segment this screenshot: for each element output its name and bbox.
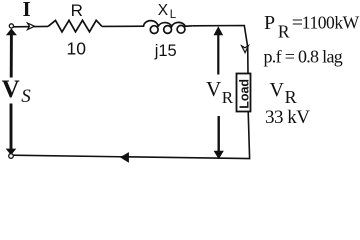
svg-text:V: V [270,79,285,101]
VS arrow down head (at source bottom) [6,149,17,156]
node: source top terminal [9,24,13,28]
svg-text:R: R [222,88,234,107]
svg-text:Load: Load [238,79,252,109]
VS arrow upper shaft [10,35,13,78]
svg-text:S: S [21,86,31,107]
VR arrow up (load voltage, head) [214,26,224,35]
svg-text:R: R [278,22,290,42]
svg-text:V: V [206,77,221,101]
svg-text:j15: j15 [154,42,177,60]
VR arrow down shaft [217,116,219,152]
svg-text:10: 10 [67,39,87,59]
svg-text:L: L [170,9,177,21]
svg-text:X: X [158,2,169,19]
svg-text:I: I [23,0,31,21]
wire: load bottom to bottom-right corner [12,112,250,159]
current arrowhead (open, pointing down) on load feeder [242,46,249,53]
VR arrow down head [214,151,224,160]
svg-text:33 kV: 33 kV [265,107,310,128]
VS arrow lower shaft [10,104,13,150]
inductor L1 (loop style) [143,21,192,27]
current arrowhead I (open, pointing right) [28,23,35,30]
return current arrowhead (filled, pointing left) on bottom wire [121,153,129,163]
wire: resistor to inductor [102,25,144,27]
wire: top, terminal to resistor [14,25,49,27]
load box [237,74,251,112]
svg-text:V: V [2,76,20,103]
wire: inductor to top-right corner and down to load [193,26,248,74]
svg-text:R: R [285,87,297,107]
svg-text:P: P [264,12,275,34]
VR arrow up shaft [217,34,219,75]
VS arrow up head (at source top) [6,28,17,35]
svg-text:1100kW: 1100kW [302,13,360,33]
svg-text:R: R [71,1,83,20]
svg-text:p.f = 0.8 lag: p.f = 0.8 lag [264,47,343,67]
resistor R1 zigzag [48,20,102,32]
node: source bottom terminal [9,154,14,159]
